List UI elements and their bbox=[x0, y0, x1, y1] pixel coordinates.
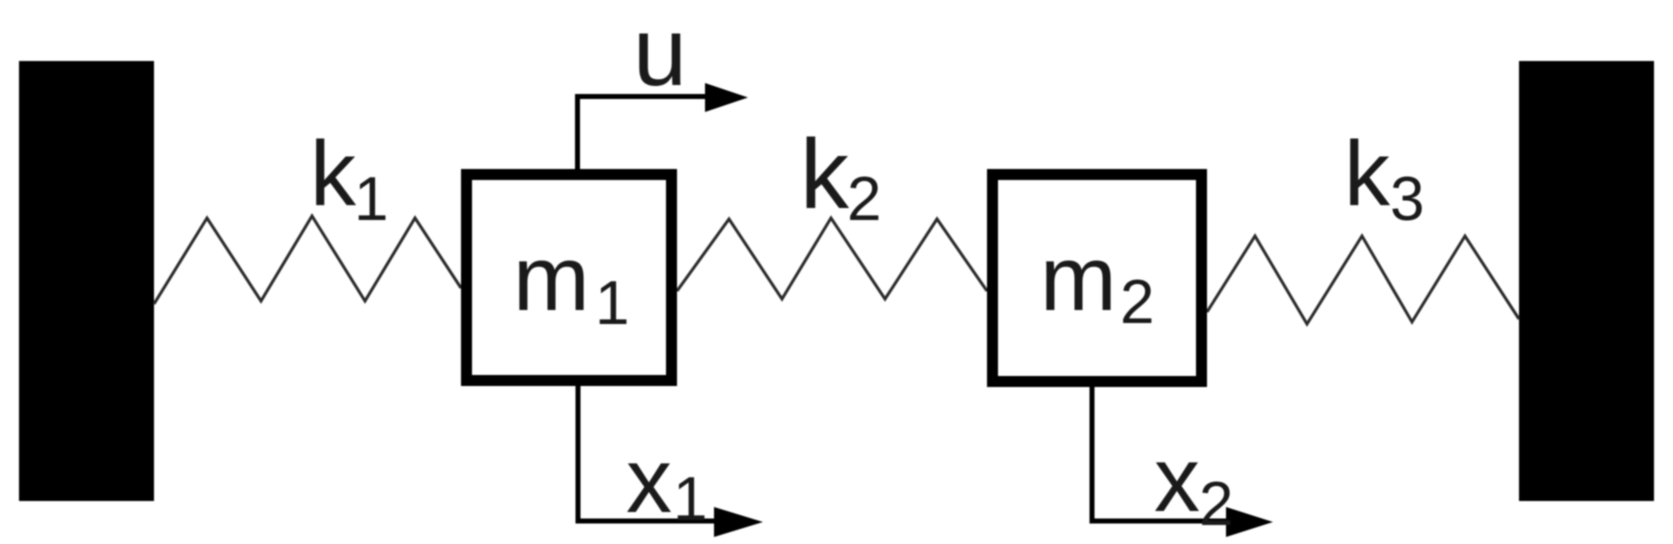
mass m1 box bbox=[467, 175, 672, 381]
wall left bbox=[19, 61, 154, 501]
arrow u head bbox=[705, 83, 748, 112]
svg-text:3: 3 bbox=[1390, 165, 1424, 234]
svg-text:1: 1 bbox=[354, 165, 388, 234]
arrow u wire vertical bbox=[578, 97, 708, 171]
arrow x1 wire bbox=[578, 386, 716, 521]
svg-text:u: u bbox=[633, 0, 687, 106]
svg-text:x: x bbox=[626, 430, 672, 532]
arrow x1 head bbox=[714, 507, 763, 537]
svg-text:k: k bbox=[800, 119, 850, 229]
svg-text:k: k bbox=[310, 123, 357, 225]
mass m2 box bbox=[993, 175, 1202, 382]
wall right bbox=[1519, 61, 1654, 501]
svg-text:2: 2 bbox=[1120, 268, 1154, 337]
svg-text:k: k bbox=[1344, 123, 1391, 225]
svg-text:1: 1 bbox=[673, 465, 707, 534]
spring k3 bbox=[1207, 236, 1519, 324]
svg-text:2: 2 bbox=[1199, 470, 1233, 539]
arrow x2 wire bbox=[1092, 387, 1228, 521]
spring k1 bbox=[154, 216, 461, 304]
svg-text:1: 1 bbox=[595, 269, 629, 338]
svg-text:m: m bbox=[513, 228, 590, 330]
svg-text:x: x bbox=[1154, 429, 1200, 531]
spring k2 bbox=[677, 218, 987, 299]
svg-text:2: 2 bbox=[847, 165, 881, 234]
arrow x2 head bbox=[1226, 507, 1273, 537]
svg-text:m: m bbox=[1040, 228, 1117, 330]
